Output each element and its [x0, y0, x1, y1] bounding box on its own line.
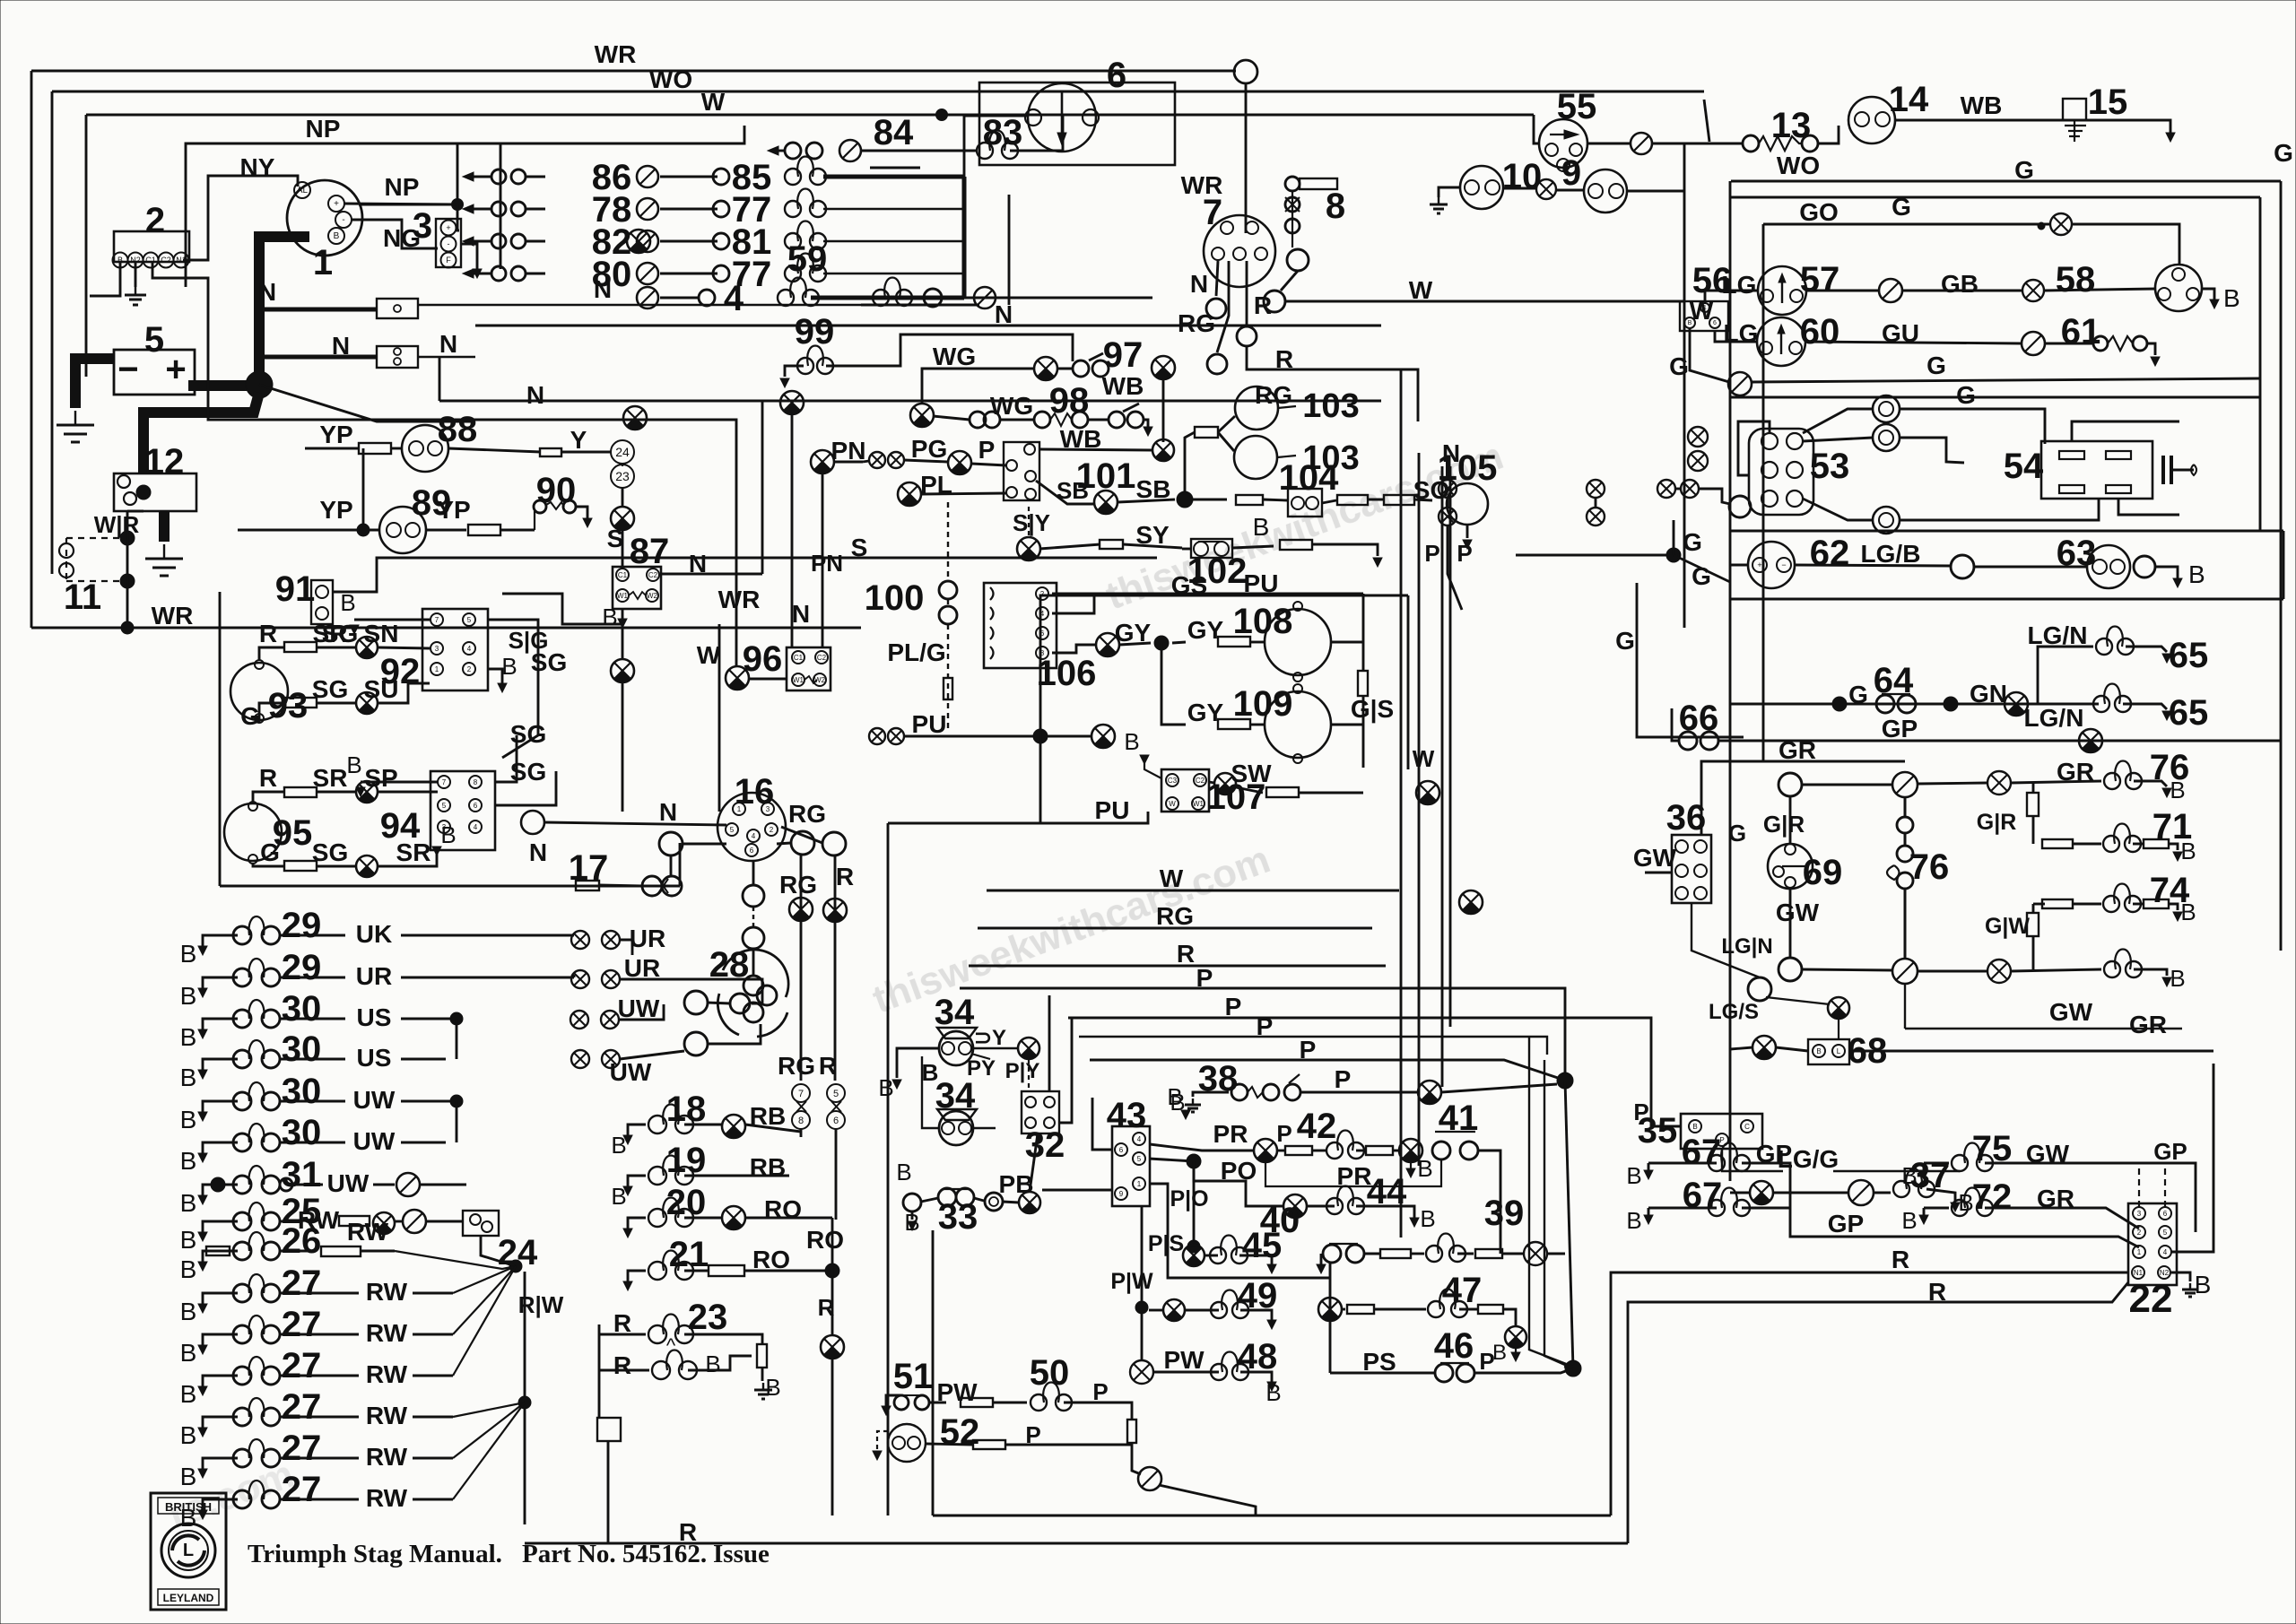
node top WR circle — [1234, 60, 1257, 83]
svg-text:GR: GR — [1779, 736, 1816, 764]
wire PU up and right — [1040, 595, 1408, 736]
svg-text:R: R — [1892, 1246, 1909, 1273]
svg-text:B: B — [2188, 560, 2205, 588]
switch row 30 US — [203, 1059, 238, 1070]
svg-text:GW: GW — [1633, 844, 1677, 872]
border outer top (WR wire) — [31, 70, 1236, 73]
svg-text:R: R — [613, 1351, 631, 1379]
svg-text:RG: RG — [788, 800, 826, 828]
svg-text:42: 42 — [1297, 1107, 1337, 1146]
svg-text:W: W — [697, 641, 721, 669]
wire S from 91 — [333, 558, 1157, 592]
svg-text:24: 24 — [615, 445, 630, 459]
svg-text:UR: UR — [356, 962, 392, 990]
svg-text:R: R — [1177, 940, 1195, 968]
svg-text:7: 7 — [798, 1089, 804, 1099]
wire 43 term5 to PO dot — [1149, 1159, 1194, 1161]
svg-text:SG: SG — [312, 675, 348, 703]
svg-text:PR: PR — [1213, 1120, 1248, 1148]
svg-text:P: P — [1424, 540, 1439, 567]
bulb PB to 32 — [1019, 1192, 1040, 1213]
svg-text:SP: SP — [364, 764, 397, 792]
vertical switch 76 — [1904, 797, 1907, 817]
svg-text:PN: PN — [811, 550, 843, 577]
svg-text:5: 5 — [467, 616, 472, 624]
svg-text:G|S: G|S — [1351, 695, 1394, 723]
svg-text:Triumph Stag Manual.: Triumph Stag Manual. — [248, 1540, 502, 1568]
svg-text:1: 1 — [737, 805, 742, 813]
fuse row 82/81 — [463, 237, 474, 246]
P vertical dotA to dotB — [1565, 1081, 1573, 1368]
row y875 — [1802, 784, 1893, 786]
svg-text:46: 46 — [1434, 1326, 1474, 1366]
capacitor 54 — [2161, 456, 2165, 484]
wire SG labels right of 94 — [495, 735, 517, 782]
wire 55 to 13 — [1587, 143, 1631, 145]
wire LG to 60 — [1715, 331, 1756, 342]
wire W into 55 — [1534, 115, 1539, 143]
frame line left mid — [219, 592, 222, 886]
svg-text:R: R — [259, 764, 277, 792]
svg-text:B: B — [878, 1074, 893, 1101]
svg-text:N2: N2 — [2160, 1269, 2170, 1277]
svg-text:17: 17 — [569, 848, 609, 888]
svg-text:6: 6 — [1107, 56, 1126, 95]
svg-text:RB: RB — [750, 1153, 786, 1181]
svg-text:−: − — [117, 350, 138, 389]
svg-text:RW: RW — [347, 1218, 389, 1246]
svg-text:WG: WG — [933, 343, 976, 370]
svg-text:S|Y: S|Y — [1013, 509, 1050, 536]
switch row 27 RW #2 — [203, 1334, 238, 1345]
wire N from node to fusebox row1 — [259, 308, 377, 312]
svg-text:G: G — [1926, 352, 1946, 379]
svg-text:Y: Y — [570, 426, 587, 454]
wire G left vertical — [1637, 583, 1744, 737]
wire 53 left loop — [1749, 421, 1770, 433]
svg-text:GW: GW — [1776, 899, 1820, 926]
connector 10-9 — [1536, 179, 1556, 199]
svg-text:1: 1 — [1137, 1180, 1142, 1188]
svg-text:PB: PB — [999, 1170, 1034, 1198]
svg-text:18: 18 — [666, 1090, 707, 1129]
R bottom to 22 — [1611, 1272, 2128, 1515]
wire P to slash — [1132, 1451, 1141, 1474]
svg-text:27: 27 — [282, 1429, 322, 1468]
svg-text:WB: WB — [1102, 372, 1144, 400]
svg-text:5: 5 — [730, 826, 735, 834]
svg-text:53: 53 — [1810, 447, 1850, 486]
svg-text:LG/S: LG/S — [1709, 1000, 1759, 1024]
svg-text:+: + — [1757, 560, 1761, 569]
svg-text:58: 58 — [2056, 260, 2096, 300]
svg-text:+: + — [334, 199, 339, 209]
svg-text:RW: RW — [366, 1443, 408, 1471]
svg-text:W: W — [1413, 745, 1435, 772]
connector pair UR lower — [571, 970, 589, 988]
switch row 27 RW #6 — [203, 1499, 238, 1510]
wires 54 to edge — [2072, 421, 2179, 441]
svg-text:3: 3 — [2137, 1210, 2142, 1218]
svg-text:6: 6 — [833, 1116, 839, 1126]
svg-text:B: B — [602, 604, 617, 630]
svg-text:UR: UR — [624, 954, 660, 982]
switch row 31 UW — [203, 1185, 238, 1195]
svg-text:5: 5 — [442, 802, 447, 810]
svg-text:55: 55 — [1557, 87, 1597, 126]
svg-text:8: 8 — [798, 1116, 804, 1126]
svg-text:3: 3 — [435, 645, 439, 653]
wires 22 terminals up — [1960, 1175, 2139, 1203]
svg-text:65: 65 — [2169, 693, 2209, 733]
svg-text:B: B — [611, 1183, 626, 1210]
svg-text:SG: SG — [510, 720, 546, 748]
svg-text:UR: UR — [630, 925, 665, 952]
svg-text:B: B — [765, 1374, 780, 1401]
wire N row2 to right — [418, 356, 475, 359]
svg-text:G: G — [1728, 820, 1746, 847]
wire PO vertical to 45 — [1193, 1168, 1196, 1243]
svg-text:C2: C2 — [817, 654, 827, 662]
svg-text:B: B — [180, 1298, 197, 1325]
bottom run 2 — [933, 1515, 1611, 1517]
svg-text:B: B — [904, 1209, 919, 1236]
border inner top (WO wire) — [52, 91, 1704, 93]
svg-text:R: R — [1254, 291, 1272, 319]
svg-text:B: B — [180, 1339, 197, 1367]
svg-text:PG: PG — [911, 435, 947, 463]
wire PU connector — [869, 728, 885, 744]
svg-text:22: 22 — [2129, 1277, 2173, 1321]
svg-text:SR: SR — [396, 838, 431, 866]
wire SG from 92 right — [488, 620, 538, 758]
rows 18-21 lamps — [628, 1125, 646, 1135]
svg-text:106: 106 — [1037, 654, 1097, 693]
wire B to 94 — [361, 781, 438, 784]
wire GO — [1763, 223, 2050, 226]
svg-text:B: B — [180, 1463, 197, 1490]
svg-text:B: B — [180, 1380, 197, 1408]
svg-text:B: B — [1124, 728, 1139, 755]
lower middle frame — [932, 1230, 935, 1489]
svg-text:C: C — [1744, 1123, 1750, 1131]
wire PW vertical — [1141, 1206, 1144, 1361]
svg-text:UW: UW — [610, 1058, 652, 1086]
connector pair UR upper — [571, 931, 589, 949]
svg-text:−: − — [1781, 560, 1786, 569]
wire B from 34 upper — [897, 1048, 940, 1078]
wire N diagonal from node down-right — [259, 385, 475, 421]
svg-text:P: P — [1335, 1065, 1352, 1093]
svg-text:RG: RG — [1178, 309, 1215, 337]
wire from 106 term4 — [1052, 594, 1094, 613]
connector column right — [1587, 480, 1605, 498]
svg-text:N1: N1 — [176, 256, 187, 265]
ignition switch 6 box — [979, 83, 1175, 165]
bulb PY — [1018, 1038, 1039, 1059]
svg-text:29: 29 — [282, 948, 322, 987]
svg-text:PO: PO — [1221, 1157, 1257, 1185]
svg-text:B: B — [2223, 284, 2240, 312]
svg-text:RO: RO — [806, 1226, 844, 1254]
wire W run right — [1285, 300, 1684, 303]
svg-text:3: 3 — [413, 206, 432, 246]
svg-text:R: R — [818, 1294, 835, 1321]
wire G into 62 — [1730, 564, 1748, 567]
svg-text:P: P — [1479, 1348, 1494, 1375]
wire R vertical — [834, 855, 837, 1081]
svg-text:30: 30 — [282, 989, 322, 1029]
wire NY to component 2 — [183, 176, 298, 260]
svg-text:W1: W1 — [617, 592, 629, 600]
switch row 26 RW — [203, 1251, 238, 1262]
wire G node — [1666, 548, 1681, 562]
svg-text:27: 27 — [282, 1264, 322, 1303]
svg-text:YP: YP — [319, 496, 352, 524]
svg-text:NP: NP — [385, 173, 420, 201]
svg-text:5: 5 — [833, 1089, 839, 1099]
svg-text:F: F — [446, 256, 451, 265]
wire WB from 101 — [1040, 449, 1152, 450]
svg-text:P|S: P|S — [1148, 1231, 1184, 1256]
border outer left — [30, 71, 33, 628]
svg-text:6: 6 — [1040, 630, 1045, 638]
headlamp relay 101 connector — [1004, 442, 1039, 500]
lamp 42 ground — [1410, 1162, 1412, 1168]
svg-text:SW: SW — [1231, 760, 1272, 787]
svg-text:LEYLAND: LEYLAND — [163, 1592, 214, 1604]
svg-text:1: 1 — [435, 665, 439, 673]
svg-text:C2: C2 — [161, 256, 171, 265]
wire WR box around 7-8 — [1008, 195, 1011, 305]
svg-text:UW: UW — [353, 1127, 396, 1155]
svg-text:W1: W1 — [793, 676, 804, 684]
svg-text:RB: RB — [750, 1102, 786, 1130]
battery negative thick cable to ground — [75, 359, 114, 408]
svg-text:W|R: W|R — [94, 511, 140, 538]
svg-text:UW: UW — [618, 994, 660, 1022]
svg-text:WR: WR — [718, 586, 761, 613]
wire to horns — [1195, 427, 1218, 438]
wire from comp2 C1 down to 12 area — [152, 262, 208, 386]
svg-text:N: N — [1442, 439, 1460, 467]
svg-text:4: 4 — [474, 823, 478, 831]
row SU from 93 — [259, 703, 269, 723]
fuse block to 71 — [2032, 783, 2035, 793]
row 20 — [628, 1218, 646, 1229]
svg-text:4: 4 — [1040, 610, 1045, 618]
svg-text:GP: GP — [1828, 1210, 1864, 1238]
svg-text:RW: RW — [366, 1278, 408, 1306]
svg-text:90: 90 — [536, 471, 577, 510]
svg-text:G: G — [260, 838, 280, 866]
svg-text:G|W: G|W — [1985, 914, 2030, 939]
svg-text:N: N — [1190, 270, 1208, 298]
svg-text:54: 54 — [2004, 447, 2044, 486]
wire from 22-4 up right — [2171, 1064, 2213, 1252]
wire WR run to 96 — [208, 386, 736, 667]
switch row 30 UW — [203, 1142, 238, 1153]
svg-text:B: B — [1626, 1162, 1641, 1189]
wire WB vertical — [1162, 379, 1165, 442]
row y1081 — [1802, 969, 1893, 970]
wire 16 to connector — [683, 843, 726, 846]
svg-text:12: 12 — [144, 442, 185, 482]
wire RW vertical — [481, 1236, 516, 1266]
svg-text:B: B — [180, 1147, 197, 1175]
wire PN vertical to 96 — [822, 473, 824, 647]
svg-text:SR: SR — [313, 764, 348, 792]
svg-text:31: 31 — [282, 1155, 322, 1194]
svg-text:WB: WB — [1961, 91, 2003, 119]
svg-text:B: B — [180, 1106, 197, 1133]
svg-text:P|Y: P|Y — [1005, 1059, 1040, 1083]
wire 40-47 vertical — [1329, 1263, 1332, 1373]
inner frame top (W wire) — [86, 114, 1534, 117]
svg-text:B: B — [1170, 1089, 1185, 1116]
svg-text:N: N — [332, 332, 350, 360]
svg-text:B: B — [2180, 899, 2196, 925]
svg-text:B: B — [1816, 1047, 1821, 1055]
svg-text:69: 69 — [1803, 853, 1843, 892]
watermark — [163, 434, 1509, 1538]
battery positive thick cable to main node — [188, 380, 259, 391]
svg-text:1: 1 — [1703, 305, 1707, 311]
wire GB — [1806, 290, 1879, 292]
svg-text:6: 6 — [750, 847, 754, 855]
svg-text:2: 2 — [467, 665, 472, 673]
svg-text:-: - — [448, 239, 450, 248]
wire PG connector — [869, 452, 885, 468]
bulb mid W — [1459, 890, 1483, 914]
svg-text:15: 15 — [2088, 83, 2128, 122]
svg-text:N: N — [439, 330, 457, 358]
wire G main top — [1731, 180, 2281, 183]
svg-text:SY: SY — [1135, 521, 1170, 549]
svg-text:C1: C1 — [618, 571, 628, 579]
svg-text:B: B — [611, 1132, 626, 1159]
svg-text:N: N — [258, 278, 276, 306]
switch row 29 UR — [203, 977, 238, 988]
svg-text:5: 5 — [1137, 1155, 1142, 1163]
svg-text:Part No. 545162.: Part No. 545162. — [522, 1540, 707, 1568]
svg-text:PU: PU — [1095, 796, 1130, 824]
svg-text:W: W — [1160, 864, 1184, 892]
switch row 30 US — [203, 1019, 238, 1029]
border bottom-left corner to WR run — [31, 627, 861, 630]
svg-text:PS: PS — [1362, 1348, 1396, 1376]
wire LG/B — [1795, 565, 1951, 566]
svg-text:RG: RG — [779, 871, 817, 899]
P feed diagonals to dot B — [1529, 1037, 1573, 1367]
svg-text:2: 2 — [770, 826, 774, 834]
svg-text:P: P — [1276, 1120, 1291, 1147]
svg-text:B: B — [1692, 1123, 1697, 1131]
fuse vertical GW to 74 — [2032, 904, 2035, 914]
svg-text:GW: GW — [2049, 998, 2093, 1026]
horns 103 — [1235, 386, 1278, 430]
svg-text:96: 96 — [743, 639, 783, 679]
svg-text:-: - — [342, 215, 344, 225]
switch row 27 RW #5 — [203, 1458, 238, 1469]
svg-text:AL: AL — [297, 186, 309, 195]
wire N down to 96 — [791, 414, 794, 647]
connector pair UW lower — [571, 1050, 589, 1068]
svg-text:RG: RG — [778, 1052, 815, 1080]
wire from alternator minus to NG — [352, 220, 438, 248]
svg-text:35: 35 — [1638, 1111, 1678, 1151]
svg-text:SU: SU — [364, 675, 399, 703]
node WR lower — [120, 574, 135, 588]
column to 28 — [752, 862, 755, 884]
svg-text:B: B — [180, 982, 197, 1010]
RG terminals 7-8 — [792, 1084, 810, 1102]
svg-text:WO: WO — [1777, 152, 1820, 179]
svg-text:N: N — [689, 550, 707, 578]
N connector block row1 — [377, 299, 418, 318]
bulb overlapping 82 — [627, 230, 650, 253]
svg-text:108: 108 — [1233, 602, 1293, 641]
svg-text:S: S — [607, 525, 624, 552]
svg-text:GO: GO — [1799, 198, 1839, 226]
svg-text:P: P — [1092, 1378, 1108, 1405]
svg-text:RW: RW — [366, 1360, 408, 1388]
svg-text:G: G — [1692, 562, 1711, 590]
svg-text:63: 63 — [2057, 534, 2097, 573]
wire 36 to LGS — [1692, 903, 1760, 977]
svg-text:S: S — [851, 534, 868, 561]
svg-text:4: 4 — [1137, 1135, 1142, 1143]
wire Y to column — [448, 448, 541, 452]
svg-text:SG: SG — [510, 758, 546, 786]
wire GU — [1805, 342, 2022, 343]
svg-text:9: 9 — [1119, 1190, 1124, 1198]
row SP to 94 — [269, 791, 284, 794]
fuse row 86/85 — [463, 172, 474, 181]
wire B to 92 — [354, 619, 430, 621]
svg-text:P|W: P|W — [1110, 1269, 1153, 1294]
wire NP right branch down — [457, 143, 500, 269]
svg-text:WO: WO — [649, 65, 692, 93]
svg-text:C2: C2 — [1196, 777, 1205, 785]
svg-text:GP: GP — [1882, 715, 1918, 743]
row 21 — [628, 1271, 646, 1281]
svg-text:109: 109 — [1233, 684, 1293, 724]
wire PL — [898, 482, 921, 506]
svg-text:W: W — [1409, 276, 1433, 304]
svg-text:B: B — [2170, 965, 2185, 992]
svg-text:N: N — [526, 381, 544, 409]
svg-text:YP: YP — [437, 496, 470, 524]
wire LG/G from 35 — [1722, 1149, 1783, 1171]
svg-text:L: L — [183, 1541, 194, 1560]
svg-text:N: N — [529, 838, 547, 866]
svg-text:WR: WR — [595, 40, 637, 68]
svg-text:SB: SB — [1136, 475, 1171, 503]
svg-text:WR: WR — [1181, 171, 1223, 199]
bulb 68 row — [1752, 1036, 1776, 1059]
wire 9 to W vertical — [1627, 190, 1684, 193]
R terminals 5-6 — [827, 1084, 845, 1102]
svg-text:50: 50 — [1030, 1353, 1070, 1393]
instrument row borders — [1730, 530, 2283, 533]
svg-text:G: G — [1892, 193, 1911, 221]
svg-text:GR: GR — [2129, 1011, 2167, 1038]
svg-text:84: 84 — [874, 113, 914, 152]
svg-text:RW: RW — [366, 1402, 408, 1429]
svg-text:B: B — [180, 940, 197, 968]
svg-text:GR: GR — [2057, 758, 2094, 786]
